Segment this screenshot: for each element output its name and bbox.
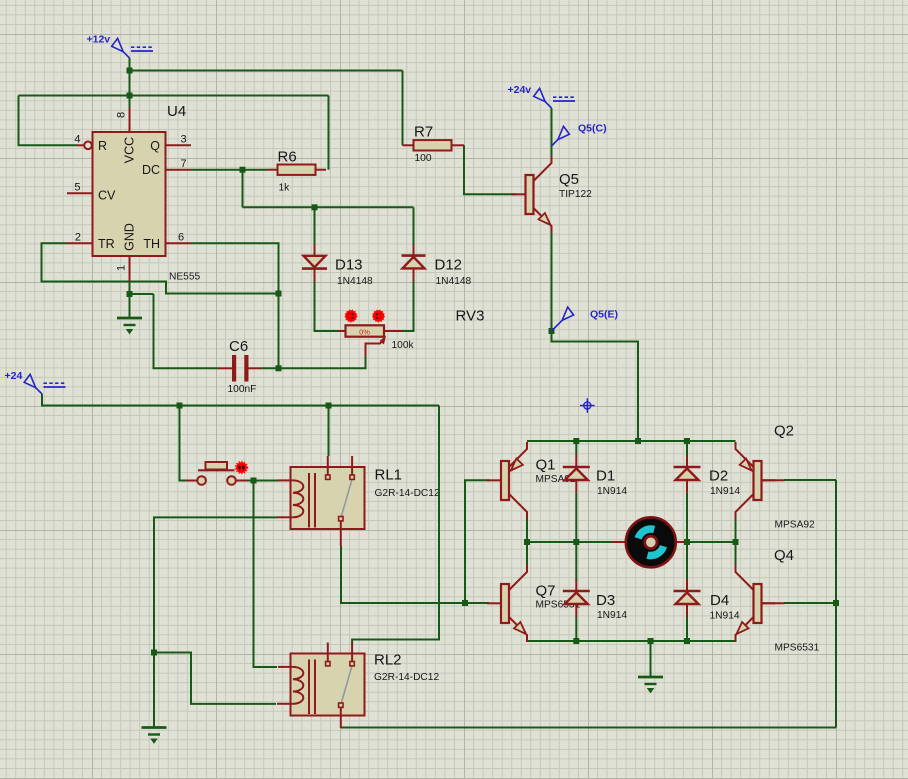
svg-text:1k: 1k — [279, 182, 291, 193]
svg-text:MPSA92: MPSA92 — [775, 520, 816, 531]
junction mid rail/D1 — [573, 539, 579, 545]
pin 5 stub (CV) — [67, 192, 93, 194]
svg-text:TIP122: TIP122 — [559, 189, 592, 200]
wire R6 right riser — [328, 96, 330, 170]
svg-text:DC: DC — [142, 163, 160, 177]
junction top rail/D1 — [573, 438, 579, 444]
junction TH column/C6 — [276, 365, 282, 371]
resistor R6 leads — [267, 169, 326, 171]
svg-text:2: 2 — [75, 232, 81, 244]
wire top rail from +12v to R7 — [130, 70, 403, 72]
svg-text:1N914: 1N914 — [710, 486, 740, 497]
junction +24 rail/button — [177, 403, 183, 409]
ground under H-bridge — [638, 677, 663, 693]
diode D3 1N914 (cathode up) — [563, 579, 590, 617]
svg-text:7: 7 — [181, 158, 187, 170]
pin 6 stub (TH) — [166, 242, 192, 244]
svg-text:Q1: Q1 — [536, 457, 556, 474]
svg-text:Q4: Q4 — [774, 547, 794, 564]
relay RL2 body — [291, 654, 365, 716]
pin 8 stub (VCC) — [129, 108, 131, 132]
wire diode rail — [243, 206, 414, 208]
svg-text:100k: 100k — [392, 340, 415, 351]
junction DC/R6 — [240, 167, 246, 173]
relay RL1 NO pin — [351, 456, 353, 475]
wire Q5 emitter to bridge — [552, 232, 639, 442]
RV3 adjust knob left — [345, 310, 357, 322]
wire Q4 base — [784, 602, 836, 604]
ground under U4 — [117, 318, 142, 334]
relay RL1 coil — [293, 480, 303, 517]
wire D1 column — [575, 441, 577, 542]
svg-text:Q: Q — [150, 139, 160, 153]
wire D4 column — [686, 542, 688, 641]
diode D2 1N914 (cathode up) — [674, 455, 701, 493]
svg-text:C6: C6 — [229, 338, 248, 355]
transistor Q5 TIP122 — [512, 156, 552, 233]
wire reset loop top — [19, 95, 329, 97]
capacitor C6 — [218, 355, 261, 382]
diode D13 (cathode down) — [302, 245, 327, 282]
wire Q2 base — [784, 479, 836, 481]
wire +12v drop to U4 pin8 — [129, 58, 131, 108]
junction mid rail right end — [733, 539, 739, 545]
power flag +24 — [24, 374, 65, 394]
svg-text:0%: 0% — [359, 327, 370, 336]
relay RL2 switch arm — [341, 666, 352, 704]
svg-text:D2: D2 — [709, 468, 728, 485]
junction button/coil drop — [251, 478, 257, 484]
wire +24 rail — [42, 394, 439, 406]
power flag +24v — [534, 88, 575, 108]
wire R7 to Q5 base — [464, 145, 516, 194]
resistor R7 — [414, 140, 452, 150]
wire RL2 arm to right riser — [341, 727, 836, 729]
pin 1 stub (GND) — [129, 256, 131, 282]
wire +24v drop to Q5 — [551, 108, 553, 158]
wire D12 to RV3 right — [402, 282, 414, 332]
wire C6 left to pin1 net — [154, 294, 219, 368]
resistor R7 leads — [403, 144, 465, 146]
svg-text:D12: D12 — [435, 256, 463, 273]
wire D13 to RV3 left — [315, 282, 339, 332]
pin 4 stub with bubble (R) — [77, 142, 92, 150]
wire right collector riser — [735, 516, 737, 568]
relay RL2 common pin — [340, 708, 342, 728]
svg-text:U4: U4 — [167, 103, 186, 120]
svg-text:RL2: RL2 — [374, 652, 402, 669]
svg-text:Q7: Q7 — [536, 582, 556, 599]
svg-text:MPS6531: MPS6531 — [775, 643, 820, 654]
wire bridge top rail — [527, 440, 736, 442]
voltage probe Q5(E) — [552, 307, 574, 331]
wire RV3 wiper run — [279, 356, 366, 368]
relay RL2 NO pin — [351, 643, 353, 662]
svg-text:TH: TH — [143, 237, 160, 251]
svg-text:GND: GND — [123, 223, 137, 251]
wire RL1 contact feed — [328, 406, 330, 457]
junction +12v/top rail — [127, 68, 133, 74]
wire Q1 Q7 base tie — [465, 480, 489, 603]
wire button to RL1 coil — [247, 480, 278, 482]
junction Q2 Q4 base tie — [833, 600, 839, 606]
ground left of RL2 — [142, 728, 167, 744]
wire RL2 coil branch — [154, 653, 276, 704]
junction bottom rail/D4 — [684, 638, 690, 644]
junction bottom rail/D3 — [573, 638, 579, 644]
svg-text:3: 3 — [181, 134, 187, 146]
wire pin1 junction net — [130, 282, 154, 295]
relay RL1 core — [309, 473, 315, 528]
transistor Q7 MPS6531 — [487, 565, 527, 642]
relay RL1 body — [291, 467, 365, 529]
Q4 base stub extension — [762, 602, 785, 604]
svg-text:D1: D1 — [596, 468, 615, 485]
svg-text:1: 1 — [116, 265, 128, 271]
svg-text:R7: R7 — [414, 123, 433, 140]
wire C6 right lead — [261, 367, 279, 369]
svg-text:+12v: +12v — [87, 34, 111, 46]
junction +24 rail/RL1 — [326, 403, 332, 409]
svg-text:RL1: RL1 — [375, 467, 403, 484]
junction top rail/feed — [635, 438, 641, 444]
voltage probe Q5(C) — [552, 126, 570, 146]
wire R7 feed drop — [402, 71, 404, 146]
svg-text:Q5(C): Q5(C) — [578, 123, 607, 135]
relay RL2 coil pins — [277, 667, 293, 704]
wire pin1 to ground — [129, 294, 131, 318]
svg-text:CV: CV — [98, 189, 116, 203]
wire +24 long drop to RL2 — [352, 406, 439, 646]
svg-text:RV3: RV3 — [456, 308, 485, 325]
svg-text:Q2: Q2 — [774, 422, 794, 439]
svg-text:6: 6 — [178, 232, 184, 244]
svg-text:+24: +24 — [5, 370, 23, 382]
wire mid rail left — [527, 541, 612, 543]
svg-text:R: R — [98, 139, 107, 153]
transistor Q4 MPS6531 — [736, 565, 776, 642]
wire RL1 coil return — [154, 517, 277, 727]
wire right riser — [835, 480, 837, 728]
pin 7 stub (DC) — [166, 169, 192, 171]
relay RL1 switch arm — [341, 479, 352, 517]
relay RL1 coil pins — [277, 480, 293, 517]
wire TR loop — [42, 243, 279, 293]
svg-text:1N914: 1N914 — [597, 610, 627, 621]
svg-text:8: 8 — [116, 112, 128, 118]
wire D2 column — [686, 441, 688, 542]
wire bridge ground drop — [650, 641, 652, 677]
wire button drop — [180, 406, 187, 481]
diode D1 1N914 (cathode up) — [563, 455, 590, 493]
RV3 adjust knob right — [373, 310, 385, 322]
svg-text:VCC: VCC — [123, 137, 137, 163]
diode D12 (cathode up) — [402, 245, 426, 282]
op-amp U4 NE555 body — [93, 132, 166, 256]
push button contacts — [197, 476, 236, 485]
svg-text:Q5(E): Q5(E) — [590, 309, 618, 321]
svg-text:1N914: 1N914 — [710, 611, 740, 622]
junction diode rail/D13 — [312, 204, 318, 210]
relay RL2 contact pads — [326, 662, 355, 708]
svg-text:D13: D13 — [335, 256, 363, 273]
transistor Q1 MPSA92 — [487, 442, 527, 519]
junction pin1 net — [127, 291, 133, 297]
relay RL1 common pin — [340, 521, 342, 546]
pin 2 stub (TR) — [67, 242, 93, 244]
wire TH pin6 column — [191, 243, 279, 368]
wire RL1 arm to bases — [341, 546, 465, 603]
wire left collector riser — [526, 516, 528, 568]
junction +12v/reset loop — [127, 93, 133, 99]
relay RL2 core — [309, 660, 315, 715]
junction mid rail left end — [524, 539, 530, 545]
origin marker — [580, 398, 595, 413]
wire bridge bottom rail — [527, 640, 736, 642]
wire mid rail right — [687, 541, 736, 543]
svg-text:1N4148: 1N4148 — [436, 276, 472, 287]
Q2 base stub extension — [762, 479, 785, 481]
relay RL1 NC pin — [327, 456, 329, 475]
wire coil drop to RL2 — [254, 481, 278, 668]
svg-text:G2R-14-DC12: G2R-14-DC12 — [374, 672, 439, 683]
svg-text:TR: TR — [98, 237, 115, 251]
wire D12 top drop — [413, 207, 415, 244]
pin 3 stub (Q) — [166, 144, 192, 146]
svg-text:5: 5 — [74, 182, 80, 194]
motor leads — [612, 541, 685, 543]
junction bottom rail/ground — [648, 638, 654, 644]
svg-text:NE555: NE555 — [169, 272, 200, 283]
junction base tie — [462, 600, 468, 606]
junction mid rail/D2 — [684, 539, 690, 545]
push button actuator — [198, 462, 235, 470]
relay RL2 NC pin — [327, 643, 329, 662]
wire D3 column — [575, 542, 577, 641]
transistor Q2 MPSA92 — [736, 442, 776, 519]
push button leads — [186, 480, 247, 482]
svg-text:Q5: Q5 — [559, 171, 579, 188]
svg-text:100nF: 100nF — [228, 384, 257, 395]
svg-text:1N4148: 1N4148 — [337, 276, 373, 287]
push button red indicator — [236, 462, 248, 474]
svg-text:G2R-14-DC12: G2R-14-DC12 — [375, 488, 440, 499]
svg-text:D4: D4 — [710, 592, 729, 609]
relay RL1 contact pads — [326, 475, 355, 521]
junction TR loop/TH column — [276, 291, 282, 297]
svg-text:+24v: +24v — [508, 84, 532, 96]
wire reset loop left to pin4 — [19, 96, 78, 146]
potentiometer RV3 — [338, 325, 402, 356]
wire DC pin7 to R6 — [191, 169, 267, 171]
relay RL2 coil — [293, 667, 303, 704]
junction Q5 emitter probe — [549, 328, 555, 334]
svg-text:R6: R6 — [278, 149, 297, 166]
motor — [626, 517, 676, 567]
svg-text:D3: D3 — [596, 592, 615, 609]
junction top rail/D2 — [684, 438, 690, 444]
svg-text:1N914: 1N914 — [597, 486, 627, 497]
junction ground branch RL2 — [151, 650, 157, 656]
power flag +12v — [112, 38, 153, 58]
wire DC riser down — [242, 170, 244, 208]
wire D13 top drop — [314, 207, 316, 244]
diode D4 1N914 (cathode up) — [674, 579, 701, 617]
svg-text:100: 100 — [415, 153, 432, 164]
svg-text:4: 4 — [74, 134, 80, 146]
resistor R6 — [278, 165, 316, 175]
